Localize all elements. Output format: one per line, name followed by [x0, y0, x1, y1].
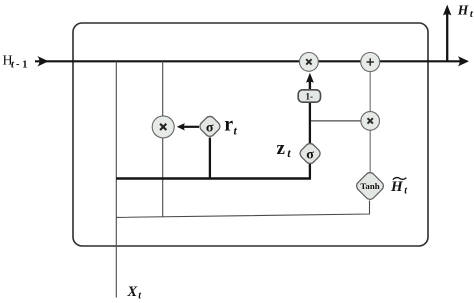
input arrowhead on H line	[37, 56, 48, 67]
wire: sigma-r stem	[209, 138, 211, 180]
label z_t	[277, 138, 292, 160]
label H-tilde_t	[390, 178, 408, 197]
svg-text:σ: σ	[206, 120, 214, 135]
wire: X_t vertical line	[115, 61, 117, 297]
svg-text:-: -	[16, 59, 20, 70]
GRU cell box	[73, 23, 428, 246]
label X_t	[127, 284, 143, 302]
wire: H_t output vertical arrow	[446, 12, 448, 61]
wire: z stem upper (1- to sigma)	[309, 102, 311, 144]
svg-text:t: t	[11, 60, 15, 71]
svg-text:r: r	[224, 113, 233, 135]
wire: multiply-2 to Tanh (gray)	[369, 130, 371, 172]
label r_t	[224, 113, 237, 137]
sigma r gate diamond	[198, 114, 222, 138]
svg-text:t: t	[138, 290, 142, 301]
svg-text:t: t	[287, 146, 291, 160]
multiply node x3 (r times H)	[152, 116, 174, 138]
wire: r-times-H vertical line	[162, 61, 164, 217]
wire: bottom line to Tanh	[116, 201, 369, 218]
wire: z stem lower (sigma to bus)	[309, 164, 311, 180]
wire: arrow 1- to multiply node	[309, 80, 311, 91]
label H_t-1	[3, 53, 28, 70]
1- node	[298, 90, 320, 102]
svg-text:t: t	[234, 123, 238, 137]
plus node (on H line)	[361, 53, 380, 72]
svg-text:1: 1	[22, 60, 27, 71]
wire: arrow sigma-r to multiply node	[183, 126, 199, 128]
label H_t (output)	[457, 2, 474, 20]
output arrowhead on H line	[458, 56, 469, 66]
wire: z branch to multiply-2	[311, 120, 361, 122]
svg-text:1-: 1-	[306, 91, 314, 101]
svg-text:H: H	[457, 2, 469, 17]
Tanh diamond	[355, 171, 386, 202]
multiply node x2 (z times H-tilde)	[361, 112, 380, 131]
multiply node x1 (on H line)	[300, 53, 319, 72]
svg-text:X: X	[127, 284, 138, 300]
svg-text:H: H	[390, 179, 404, 195]
svg-text:t: t	[470, 9, 474, 20]
wire: thick input bus horizontal	[116, 177, 311, 179]
wire: main H horizontal line	[35, 60, 462, 62]
sigma z gate diamond	[298, 141, 322, 165]
svg-text:t: t	[404, 186, 408, 197]
svg-text:σ: σ	[306, 148, 314, 163]
wire: plus to multiply-2 (gray)	[369, 72, 371, 112]
svg-text:z: z	[277, 138, 286, 159]
svg-text:Tanh: Tanh	[360, 181, 379, 191]
